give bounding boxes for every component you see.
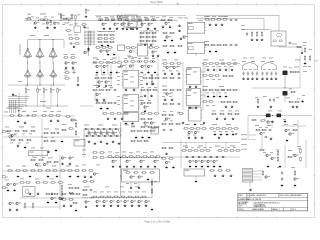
transistor Q7 <box>114 23 119 26</box>
ground <box>61 162 64 165</box>
diode ladder segment <box>100 129 103 136</box>
net label <box>107 191 111 194</box>
net label <box>124 97 128 100</box>
ground <box>266 77 269 80</box>
ground <box>194 136 197 139</box>
ground <box>301 51 304 54</box>
net label <box>212 123 217 126</box>
ground <box>178 29 181 32</box>
wire <box>145 63 147 70</box>
resistor R103 <box>111 62 117 64</box>
junction <box>18 110 19 111</box>
resistor R216 <box>178 113 184 115</box>
wire <box>278 15 280 31</box>
net label <box>103 100 106 103</box>
ground <box>195 180 198 183</box>
ground <box>209 50 212 53</box>
net label <box>31 16 34 19</box>
ground <box>182 121 185 124</box>
registration cross top <box>176 2 179 5</box>
ground <box>61 197 64 200</box>
transistor Q19 <box>166 36 171 39</box>
net label <box>212 65 215 68</box>
IC U-sm <box>118 45 125 51</box>
ground <box>13 189 16 192</box>
ground <box>53 26 56 29</box>
ground <box>220 133 223 136</box>
ground <box>154 165 157 168</box>
net label <box>73 119 77 122</box>
resistor R202 <box>128 156 134 158</box>
ground <box>121 117 124 120</box>
diode D3 <box>96 128 100 130</box>
transistor Q77 <box>110 200 115 203</box>
IC U-top <box>123 15 139 27</box>
resistor R193 <box>136 140 142 142</box>
resistor R156 <box>65 116 71 118</box>
ground <box>34 26 37 29</box>
net label <box>288 149 292 152</box>
resistor R239 <box>255 129 261 131</box>
wire <box>185 143 187 151</box>
net label <box>82 149 86 152</box>
ground <box>195 106 198 109</box>
net label <box>20 178 24 181</box>
ground <box>147 165 150 168</box>
ground <box>188 136 191 139</box>
net label <box>44 128 49 131</box>
resistor R217 <box>183 128 189 130</box>
resistor R144 <box>289 71 295 73</box>
net label <box>308 65 311 68</box>
transistor Q18 <box>183 36 188 39</box>
net label <box>291 166 295 169</box>
resistor R284 <box>149 172 155 174</box>
resistor R303 <box>225 170 231 172</box>
capacitor C4 <box>229 19 233 21</box>
ground <box>152 54 155 57</box>
ground <box>29 175 32 178</box>
junction <box>211 157 212 158</box>
ground <box>125 88 128 91</box>
resistor R243 <box>277 150 279 156</box>
resistor R6 <box>65 18 71 20</box>
wire <box>249 139 256 141</box>
net label <box>63 18 67 21</box>
resistor R171 <box>53 161 59 163</box>
resistor R145 <box>294 71 300 73</box>
resistor R172 <box>61 129 67 131</box>
wire <box>238 63 240 65</box>
net label <box>261 60 265 63</box>
net label <box>224 15 228 18</box>
net label <box>268 110 272 113</box>
net label <box>70 14 74 17</box>
wire <box>299 56 301 88</box>
net label <box>263 95 267 98</box>
resistor R241 <box>292 129 298 131</box>
net label <box>6 165 10 168</box>
junction <box>61 20 62 21</box>
junction <box>127 20 128 21</box>
transistor Q65 <box>267 121 272 124</box>
ground <box>100 107 103 110</box>
net label <box>277 166 281 169</box>
svg-text:MR D.W. SMITH: MR D.W. SMITH <box>247 199 262 201</box>
transistor Q21 <box>103 65 108 68</box>
net label <box>200 123 204 126</box>
connector stub <box>3 187 8 189</box>
resistor R88 <box>136 61 142 63</box>
resistor R199 <box>107 156 113 158</box>
resistor R236 <box>168 147 174 149</box>
net label <box>141 86 144 89</box>
resistor R248 <box>251 119 257 121</box>
resistor R212 <box>234 113 240 115</box>
resistor R160 <box>30 130 36 132</box>
junction <box>205 157 206 158</box>
resistor R67 <box>204 44 210 46</box>
wire <box>162 142 240 144</box>
net label <box>97 30 101 33</box>
net label <box>148 99 151 102</box>
ground <box>17 120 20 123</box>
transistor Q71 <box>16 202 21 205</box>
net label <box>131 57 134 60</box>
ground <box>146 82 149 85</box>
transistor Q15 <box>152 51 157 54</box>
net label <box>232 59 236 62</box>
wire <box>253 176 263 178</box>
ground <box>195 85 198 88</box>
resistor R127 <box>232 63 238 65</box>
ground <box>207 165 210 168</box>
net label <box>135 186 139 189</box>
resistor R179 <box>123 113 129 115</box>
ground <box>103 98 106 101</box>
resistor R92 <box>100 77 106 79</box>
resistor R27 <box>110 18 116 21</box>
resistor R223 <box>221 128 227 130</box>
resistor R98 <box>98 89 104 91</box>
resistor R79 <box>296 46 302 48</box>
resistor R271 <box>61 184 63 190</box>
resistor R200 <box>114 156 120 158</box>
ground <box>230 174 233 177</box>
IC U-g1 <box>185 68 202 85</box>
transistor Q47 <box>126 160 131 163</box>
IC U-mid1 <box>122 71 140 89</box>
resistor R148 <box>288 101 294 103</box>
polarized cap CP1 <box>266 114 271 118</box>
title block <box>238 193 308 211</box>
wire <box>281 125 306 127</box>
resistor R66 <box>222 19 228 21</box>
resistor R222 <box>215 128 221 130</box>
junction <box>266 115 267 116</box>
resistor R178 <box>116 113 122 115</box>
net label <box>241 143 247 146</box>
ground <box>232 117 235 120</box>
junction <box>39 39 40 40</box>
resistor R204 <box>142 156 148 158</box>
wire <box>82 197 153 199</box>
capacitor C32 <box>89 189 93 191</box>
net label <box>255 96 258 99</box>
capacitor C3 <box>72 71 76 73</box>
wire <box>116 15 118 20</box>
net label <box>144 57 149 60</box>
wire <box>187 33 189 42</box>
wire <box>253 170 263 172</box>
net label <box>140 71 143 74</box>
net label <box>117 71 120 74</box>
resistor R252 <box>22 170 28 172</box>
resistor R258 <box>67 170 73 172</box>
ground <box>164 98 167 101</box>
wire <box>284 96 286 103</box>
junction <box>105 197 106 198</box>
resistor R203 <box>135 156 141 158</box>
net label <box>150 15 155 18</box>
net label <box>110 86 113 89</box>
capacitor C18 <box>256 71 258 75</box>
junction <box>111 62 112 63</box>
net label <box>108 30 112 33</box>
net label <box>74 23 78 26</box>
resistor R197 <box>92 157 98 159</box>
ground <box>242 77 245 80</box>
resistor R128 <box>202 75 208 77</box>
resistor R109 <box>146 102 152 104</box>
ground <box>165 166 168 169</box>
diode ladder segment <box>94 129 97 136</box>
net label <box>36 17 39 20</box>
ground <box>69 175 72 178</box>
ground <box>292 105 295 108</box>
capacitor C13 <box>177 77 181 79</box>
svg-text:OF 1: OF 1 <box>292 209 296 211</box>
wire <box>216 64 218 73</box>
ground <box>214 174 217 177</box>
net label <box>162 15 166 18</box>
resistor R173 <box>68 128 74 130</box>
resistor R65 <box>216 19 222 21</box>
transistor Q72 <box>130 176 135 179</box>
net label <box>191 146 194 149</box>
junction <box>120 131 121 132</box>
resistor R185 <box>140 126 146 128</box>
transistor Q76 <box>103 200 108 203</box>
ground <box>147 178 150 181</box>
resistor R19 <box>70 57 76 59</box>
ground <box>96 204 99 207</box>
wire <box>152 30 154 46</box>
ground <box>130 186 133 189</box>
ground <box>56 175 59 178</box>
ground <box>275 77 278 80</box>
transformer arch 1 <box>243 63 258 71</box>
resistor R7 <box>71 14 73 20</box>
IC U-g3 <box>187 107 202 121</box>
resistor R210 <box>219 113 225 115</box>
ground <box>144 43 147 46</box>
junction <box>26 106 27 107</box>
transistor Q49 <box>154 160 159 163</box>
net label <box>110 58 113 61</box>
resistor R221 <box>209 128 215 130</box>
transistor Q43 <box>100 132 105 135</box>
resistor R141 <box>220 101 226 103</box>
resistor R268 <box>61 193 67 195</box>
ground <box>171 72 174 75</box>
resistor R215 <box>175 123 181 125</box>
capacitor C15 <box>242 71 244 75</box>
net label <box>303 70 307 73</box>
junction <box>133 197 134 198</box>
net label <box>204 15 209 18</box>
ground <box>294 184 297 187</box>
ground <box>226 133 229 136</box>
wire <box>249 134 256 136</box>
ground <box>218 136 221 139</box>
resistor R62 <box>167 19 173 21</box>
net label <box>162 85 167 88</box>
net label <box>226 123 231 126</box>
wire <box>84 128 122 130</box>
ground <box>271 120 274 123</box>
resistor R231 <box>217 150 223 152</box>
net label <box>129 151 133 154</box>
net label <box>117 103 120 106</box>
junction <box>42 137 43 138</box>
transistor Q54 <box>195 160 200 163</box>
wire <box>284 75 286 88</box>
wire <box>201 71 205 73</box>
diode D17 <box>209 156 213 158</box>
resistor R132 <box>208 89 214 91</box>
ground <box>107 44 110 47</box>
junction <box>152 61 153 62</box>
junction <box>113 20 114 21</box>
junction <box>40 85 41 86</box>
net label <box>231 130 234 133</box>
transistor Q74 <box>93 173 98 176</box>
ground <box>126 165 129 168</box>
wire <box>204 90 206 98</box>
net label <box>276 149 279 152</box>
net label <box>150 74 153 77</box>
transistor Q46 <box>112 160 117 163</box>
connector J1 pin strip <box>84 31 95 46</box>
transistor Q85 <box>294 178 299 181</box>
net label <box>206 104 209 107</box>
net label <box>297 98 300 101</box>
transistor Q29 <box>144 106 149 109</box>
transistor Q20 <box>96 65 101 68</box>
net label <box>44 136 47 139</box>
ground <box>84 175 87 178</box>
ground <box>147 71 150 74</box>
ground <box>12 93 15 96</box>
net label <box>206 19 210 22</box>
junction <box>140 197 141 198</box>
net label <box>26 142 29 145</box>
ground <box>225 105 228 108</box>
net label <box>19 126 24 129</box>
resistor R61 <box>160 19 166 21</box>
net label <box>184 17 188 20</box>
wire <box>50 85 52 87</box>
IC REG1 <box>187 22 206 33</box>
net label <box>218 78 221 81</box>
net label <box>124 78 128 81</box>
net label <box>198 19 203 22</box>
ground <box>225 95 228 98</box>
resistor R191 <box>149 130 155 132</box>
ground <box>107 53 110 56</box>
diode D4 <box>102 128 106 130</box>
wire <box>25 85 27 87</box>
resistor R188 <box>130 130 136 132</box>
resistor R39 <box>109 38 115 40</box>
inner label box <box>188 47 193 50</box>
resistor R40 <box>97 41 103 43</box>
net label <box>104 30 108 33</box>
bus wires vertical <box>10 100 16 113</box>
resistor R302 <box>217 170 223 172</box>
resistor R277 <box>32 202 34 208</box>
net label <box>197 146 200 149</box>
resistor R116 <box>169 77 175 79</box>
net label <box>130 105 134 108</box>
capacitor C16 <box>247 71 249 75</box>
ground <box>270 137 273 140</box>
resistor R12 <box>74 43 80 45</box>
ground <box>249 188 252 191</box>
net label <box>58 13 61 16</box>
resistor R84 <box>98 62 104 64</box>
junction <box>68 20 69 21</box>
svg-text:GRASSINGTON: GRASSINGTON <box>254 205 267 208</box>
capacitor C12 <box>113 102 117 104</box>
net label <box>14 107 18 110</box>
diode ladder segment <box>118 129 121 136</box>
net label <box>42 23 45 26</box>
resistor R242 <box>259 149 265 151</box>
transistor Q26 <box>98 81 103 84</box>
transistor Q8 <box>121 23 126 26</box>
wire <box>297 120 299 145</box>
resistor R291 <box>106 196 112 198</box>
resistor R113 <box>169 63 175 65</box>
net label <box>5 179 9 182</box>
ground <box>29 192 32 195</box>
net label <box>178 17 183 20</box>
net label <box>228 110 232 113</box>
net label <box>187 89 191 92</box>
net label <box>230 65 233 68</box>
net label <box>125 124 129 127</box>
net label <box>96 164 100 167</box>
transistor Q3 <box>53 22 58 25</box>
svg-text:CITY:: CITY: <box>239 205 244 207</box>
ground <box>162 25 165 28</box>
resistor R5 <box>62 18 68 20</box>
capacitor C24 <box>273 98 275 102</box>
resistor R93 <box>107 77 113 79</box>
wire <box>279 46 302 48</box>
